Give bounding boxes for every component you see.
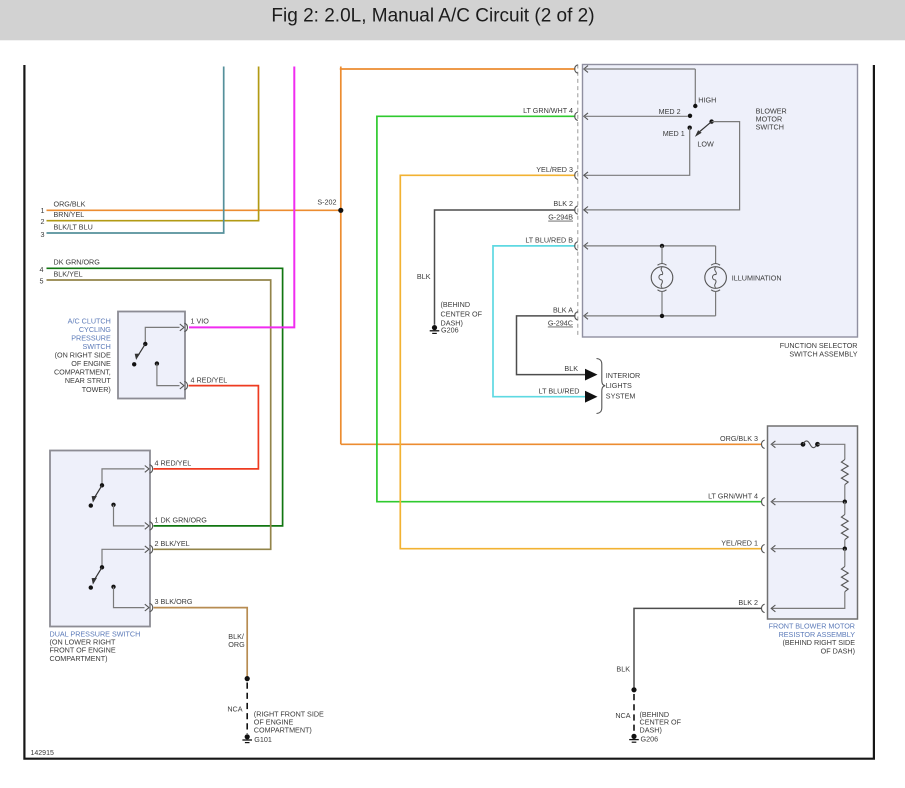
dual pressure pin 4 connector arc — [150, 465, 153, 473]
svg-text:BLK: BLK — [417, 272, 431, 281]
illumination lamp 2 — [715, 246, 717, 264]
svg-text:Fig 2: 2.0L, Manual A/C Circui: Fig 2: 2.0L, Manual A/C Circuit (2 of 2) — [271, 6, 594, 27]
svg-text:BLK: BLK — [616, 664, 630, 673]
resistor element 1 — [841, 460, 848, 485]
dual pressure upper switch arm — [95, 485, 103, 497]
svg-text:BLK: BLK — [564, 364, 578, 373]
svg-text:G206: G206 — [641, 735, 659, 744]
svg-text:SWITCH: SWITCH — [756, 123, 784, 132]
function selector connector dashed line — [577, 65, 579, 338]
dual pressure internal wire pin 3 — [114, 587, 145, 608]
svg-text:(BEHIND: (BEHIND — [441, 300, 471, 309]
wire 3 BLK/LT BLU — [47, 67, 224, 234]
A/C clutch switch arm — [138, 344, 145, 355]
resistor pin 2 BLK — [762, 604, 765, 612]
svg-text:SWITCH ASSEMBLY: SWITCH ASSEMBLY — [789, 349, 857, 358]
title bar — [0, 0, 905, 40]
svg-text:LT GRN/WHT 4: LT GRN/WHT 4 — [523, 106, 573, 115]
blower switch wiper arm — [700, 122, 712, 132]
function selector top pin arc — [575, 65, 578, 73]
arrow to interior lights (LT BLU/RED) — [585, 391, 598, 403]
dual pressure pin 2 arrow — [145, 546, 149, 553]
svg-text:ORG: ORG — [228, 640, 245, 649]
svg-text:G-294B: G-294B — [548, 213, 573, 222]
resistor pin 1 YEL/RED — [762, 545, 765, 553]
A/C clutch switch lower contact — [132, 362, 136, 366]
svg-text:3: 3 — [41, 230, 45, 239]
wire LT GRN/WHT (function selector pin 4 to resistor pin 4) — [377, 116, 762, 501]
blower switch HIGH contact — [693, 104, 697, 108]
svg-text:ILLUMINATION: ILLUMINATION — [732, 273, 782, 282]
svg-text:NCA: NCA — [227, 705, 242, 714]
resistor element 3 — [844, 549, 846, 567]
ground G101 (right front side of engine compartment) — [245, 734, 250, 739]
illumination bottom rail junction — [660, 314, 664, 318]
svg-text:LOW: LOW — [697, 139, 714, 148]
svg-text:DASH): DASH) — [640, 726, 662, 735]
ground G206 (behind center of dash) — [432, 325, 437, 330]
dual pressure lower switch lower contact — [89, 585, 93, 589]
function selector top pin arrow, wire to HIGH contact — [584, 66, 588, 73]
svg-text:BLK/YEL: BLK/YEL — [54, 269, 83, 278]
dual pressure pin 1 connector arc — [150, 522, 153, 530]
dual pressure upper switch lower contact — [89, 503, 93, 507]
junction dot BLK — [631, 687, 636, 692]
wire BLK (function selector pin A to interior lights system) — [517, 316, 586, 375]
resistor element 2 — [844, 502, 846, 515]
svg-text:LT GRN/WHT 4: LT GRN/WHT 4 — [708, 491, 758, 500]
dual pressure switch box — [50, 451, 150, 627]
wire LT BLU/RED (function selector pin B to interior lights system) — [493, 246, 585, 397]
dual pressure lower switch right contact — [111, 585, 115, 589]
dual pressure internal wire pin 2 — [102, 549, 145, 566]
svg-text:TOWER): TOWER) — [82, 385, 111, 394]
A/C clutch switch internal wire to pin 1 — [145, 327, 179, 343]
svg-text:LT BLU/RED B: LT BLU/RED B — [525, 236, 573, 245]
svg-text:G206: G206 — [441, 326, 459, 335]
dual pressure pin 3 arrow — [145, 604, 149, 611]
svg-text:1 VIO: 1 VIO — [191, 316, 210, 325]
wire ORG/BLK vertical trunk — [340, 67, 342, 445]
wire BLK (resistor pin 2 to ground G206) — [634, 608, 762, 687]
svg-text:3 BLK/ORG: 3 BLK/ORG — [155, 597, 193, 606]
function selector switch assembly box — [583, 65, 858, 338]
dual pressure internal wire pin 1 — [114, 505, 145, 526]
A/C clutch pin 4 connector arc — [184, 381, 187, 389]
svg-text:MED 1: MED 1 — [663, 129, 685, 138]
A/C clutch switch right contact — [155, 361, 159, 365]
A/C clutch switch internal wire to pin 4 — [157, 364, 180, 386]
dual pressure lower switch contact — [100, 565, 104, 569]
svg-text:OF DASH): OF DASH) — [821, 647, 855, 656]
svg-text:BLK 2: BLK 2 — [738, 598, 758, 607]
dual pressure pin 1 arrow — [145, 523, 149, 530]
thermal limiter fuse — [801, 442, 806, 447]
svg-text:CENTER OF: CENTER OF — [441, 309, 483, 318]
svg-text:ORG/BLK 3: ORG/BLK 3 — [720, 434, 758, 443]
svg-text:4 RED/YEL: 4 RED/YEL — [155, 458, 192, 467]
illumination lamp 1 — [661, 246, 663, 264]
svg-text:SYSTEM: SYSTEM — [606, 391, 636, 400]
A/C clutch pin 1 connector arc — [184, 323, 187, 331]
resistor pin 4 LT GRN/WHT — [762, 498, 765, 506]
wire BLK/ORG (dual pressure pin 3 to ground G101) — [154, 608, 248, 677]
junction dot BLK/ORG — [245, 676, 250, 681]
wire ORG/BLK top run to function selector — [340, 68, 576, 70]
svg-text:LT BLU/RED: LT BLU/RED — [539, 386, 580, 395]
svg-text:2 BLK/YEL: 2 BLK/YEL — [155, 539, 190, 548]
dual pressure lower switch arm — [95, 567, 103, 579]
A/C clutch pin 4 arrow — [180, 382, 184, 389]
svg-text:4: 4 — [40, 265, 44, 274]
svg-text:G101: G101 — [254, 735, 272, 744]
NCA dashed lead to G206 — [633, 694, 635, 734]
svg-text:142915: 142915 — [31, 750, 54, 757]
wire ORG/BLK bottom run to resistor pin 3 — [341, 443, 762, 445]
svg-text:COMPARTMENT): COMPARTMENT) — [50, 654, 108, 663]
svg-text:COMPARTMENT): COMPARTMENT) — [254, 725, 312, 734]
wire YEL/RED (function selector pin 3 to resistor pin 1) — [400, 175, 761, 548]
svg-text:BLK 2: BLK 2 — [553, 199, 573, 208]
dual pressure pin 3 connector arc — [150, 603, 153, 611]
svg-text:BLK/LT BLU: BLK/LT BLU — [54, 222, 93, 231]
front blower motor resistor assembly box — [768, 426, 858, 619]
dual pressure upper switch contact — [100, 483, 104, 487]
interior lights system brace and label — [597, 359, 606, 414]
splice S-202 — [338, 208, 343, 213]
wire RED/YEL (A/C clutch pin 4 to dual pressure pin 4) — [154, 386, 259, 469]
function selector pin 3 YEL/RED — [575, 171, 578, 179]
svg-text:MED 2: MED 2 — [659, 107, 681, 116]
svg-text:INTERIOR: INTERIOR — [606, 371, 640, 380]
function selector pin 4 LT GRN/WHT — [575, 112, 578, 120]
wire 1 ORG/BLK (to splice S-202) — [47, 209, 341, 211]
wire VIO (A/C clutch switch pin 1) — [189, 67, 294, 328]
svg-text:BLK A: BLK A — [553, 306, 573, 315]
blower switch MED 1 contact — [688, 126, 692, 130]
blower switch MED 2 contact — [688, 114, 692, 118]
svg-text:1 DK GRN/ORG: 1 DK GRN/ORG — [155, 515, 208, 524]
svg-text:G-294C: G-294C — [548, 319, 573, 328]
NCA dashed lead to G101 — [246, 683, 248, 735]
dual pressure pin 4 arrow — [145, 466, 149, 473]
resistor pin 3 ORG/BLK — [762, 440, 765, 448]
svg-text:5: 5 — [40, 277, 44, 286]
svg-text:YEL/RED 1: YEL/RED 1 — [721, 538, 758, 547]
svg-text:BRN/YEL: BRN/YEL — [54, 210, 85, 219]
svg-text:LIGHTS: LIGHTS — [606, 381, 632, 390]
illumination top rail junction — [660, 244, 664, 248]
dual pressure switch internal wire pin 4 — [102, 469, 145, 485]
blower switch MED1 wire to pin 3 — [584, 128, 690, 176]
dual pressure pin 2 connector arc — [150, 545, 153, 553]
svg-text:DK GRN/ORG: DK GRN/ORG — [54, 258, 101, 267]
wire 4 DK GRN/ORG (to dual pressure switch pin 1) — [47, 268, 283, 526]
A/C clutch switch upper contact — [143, 342, 147, 346]
ground G206 (behind center of dash) bottom — [631, 734, 636, 739]
dual pressure upper switch right contact — [111, 503, 115, 507]
A/C clutch pin 1 arrow — [180, 324, 184, 331]
svg-text:NCA: NCA — [615, 711, 630, 720]
wire 5 BLK/YEL (to dual pressure switch pin 2) — [47, 280, 271, 549]
wire BLK (function selector pin 2 to ground G206) — [435, 210, 576, 325]
function selector pin A BLK — [575, 312, 578, 320]
svg-text:ORG/BLK: ORG/BLK — [54, 200, 86, 209]
arrow to interior lights (BLK) — [585, 369, 598, 381]
svg-text:HIGH: HIGH — [698, 95, 716, 104]
svg-text:YEL/RED 3: YEL/RED 3 — [536, 165, 573, 174]
blower switch wiper pivot and output — [709, 119, 713, 123]
svg-text:S-202: S-202 — [317, 197, 336, 206]
svg-text:4 RED/YEL: 4 RED/YEL — [191, 375, 228, 384]
function selector pin 2 BLK — [575, 206, 578, 214]
svg-text:1: 1 — [41, 206, 45, 215]
wire 2 BRN/YEL — [47, 67, 259, 221]
A/C clutch cycling pressure switch box — [118, 312, 185, 399]
function selector pin B LT BLU/RED — [575, 242, 578, 250]
svg-text:2: 2 — [41, 217, 45, 226]
